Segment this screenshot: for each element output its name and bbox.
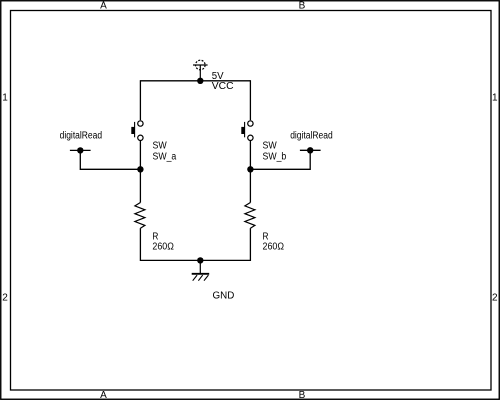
svg-text:digitalRead: digitalRead [60, 130, 103, 141]
wire R1 to bottom rail [139, 228, 141, 261]
wire bottom rail [140, 259, 250, 261]
svg-text:SW: SW [153, 141, 168, 152]
pin dot digitalRead right [307, 147, 313, 153]
svg-text:GND: GND [213, 291, 235, 302]
svg-text:A: A [100, 390, 107, 400]
wire R2 to bottom rail [249, 228, 251, 261]
junction node A [137, 166, 143, 172]
switch SW_a [131, 121, 143, 141]
resistor R1 [135, 203, 145, 229]
wire right rail drop to SW_b [249, 80, 251, 120]
resistor R2 [245, 203, 255, 229]
wire top rail [140, 80, 250, 82]
svg-text:SW_b: SW_b [263, 151, 287, 162]
svg-text:260Ω: 260Ω [152, 242, 174, 253]
pin stub digitalRead right [300, 149, 321, 151]
svg-text:B: B [299, 1, 306, 12]
svg-text:VCC: VCC [212, 81, 234, 92]
svg-text:2: 2 [2, 292, 8, 303]
ground [192, 260, 210, 280]
wire SW_b to resistor R2 [249, 141, 251, 203]
power symbol VCC [193, 60, 208, 81]
svg-text:A: A [100, 1, 107, 12]
pin dot digitalRead left [77, 147, 83, 153]
wire digitalRead left to node A [80, 150, 140, 169]
wire digitalRead right to node B [250, 150, 310, 169]
junction dot at VCC rail [197, 78, 203, 84]
svg-text:1: 1 [2, 92, 8, 103]
wire left rail drop to SW_a [139, 80, 141, 120]
svg-text:digitalRead: digitalRead [290, 130, 333, 141]
svg-text:SW_a: SW_a [153, 151, 177, 162]
switch SW_b [241, 121, 253, 141]
junction node B [247, 166, 253, 172]
pin stub digitalRead left [70, 149, 91, 151]
svg-text:B: B [299, 390, 306, 400]
svg-text:2: 2 [492, 292, 498, 303]
svg-text:260Ω: 260Ω [263, 242, 285, 253]
svg-text:1: 1 [492, 92, 498, 103]
junction dot ground [197, 257, 203, 263]
svg-text:SW: SW [263, 141, 278, 152]
wire SW_a to resistor R1 [139, 141, 141, 203]
